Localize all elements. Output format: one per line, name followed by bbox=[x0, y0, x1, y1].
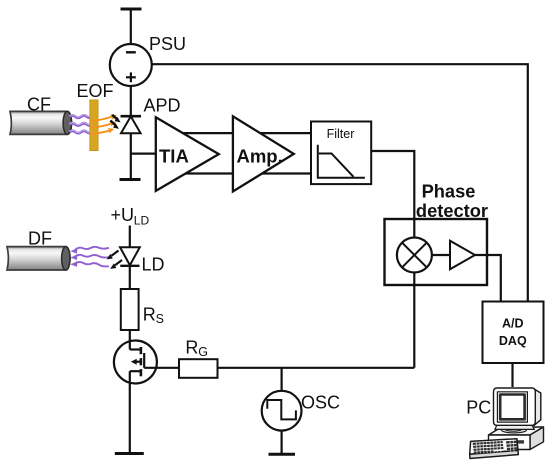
svg-text:detector: detector bbox=[416, 200, 488, 221]
svg-text:EOF: EOF bbox=[77, 81, 114, 101]
svg-text:DF: DF bbox=[28, 229, 52, 249]
svg-text:Amp.: Amp. bbox=[237, 145, 283, 166]
svg-text:G: G bbox=[198, 345, 208, 359]
svg-text:+U: +U bbox=[111, 205, 135, 225]
svg-text:R: R bbox=[143, 305, 156, 325]
svg-text:Filter: Filter bbox=[327, 127, 355, 141]
svg-text:S: S bbox=[156, 312, 164, 326]
svg-text:APD: APD bbox=[144, 96, 181, 116]
svg-text:PSU: PSU bbox=[149, 34, 186, 54]
svg-text:PC: PC bbox=[466, 398, 491, 418]
svg-text:Phase: Phase bbox=[422, 180, 476, 201]
svg-text:LD: LD bbox=[142, 255, 165, 275]
svg-text:CF: CF bbox=[27, 95, 51, 115]
svg-text:R: R bbox=[185, 338, 198, 358]
svg-text:TIA: TIA bbox=[159, 145, 189, 166]
svg-text:LD: LD bbox=[134, 214, 150, 228]
svg-text:OSC: OSC bbox=[301, 393, 340, 413]
svg-text:DAQ: DAQ bbox=[499, 334, 527, 348]
svg-text:A/D: A/D bbox=[502, 317, 524, 331]
